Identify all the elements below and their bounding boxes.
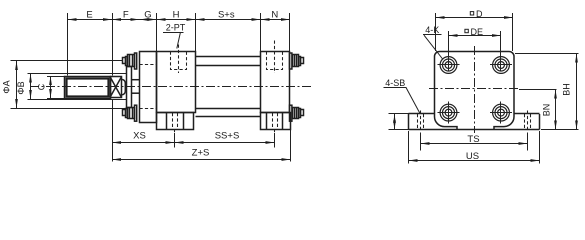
svg-text:US: US bbox=[466, 151, 479, 162]
svg-text:BH: BH bbox=[562, 83, 572, 96]
svg-text:XS: XS bbox=[133, 131, 146, 142]
svg-text:N: N bbox=[271, 10, 278, 21]
svg-text:H: H bbox=[173, 10, 180, 21]
svg-text:DE: DE bbox=[471, 27, 484, 37]
svg-text:S+s: S+s bbox=[218, 10, 235, 21]
svg-text:4-K: 4-K bbox=[425, 25, 439, 35]
svg-text:BN: BN bbox=[542, 104, 552, 117]
svg-text:4-SB: 4-SB bbox=[385, 78, 405, 88]
svg-text:TS: TS bbox=[467, 134, 479, 145]
svg-text:G: G bbox=[144, 10, 151, 21]
svg-text:C: C bbox=[37, 83, 47, 90]
svg-text:D: D bbox=[476, 9, 483, 19]
svg-text:SS+S: SS+S bbox=[215, 131, 240, 142]
svg-text:Z+S: Z+S bbox=[192, 147, 210, 158]
svg-text:2-PT: 2-PT bbox=[166, 23, 186, 33]
svg-text:ΦA: ΦA bbox=[2, 80, 12, 93]
svg-text:F: F bbox=[123, 10, 129, 21]
svg-text:E: E bbox=[86, 10, 92, 21]
svg-text:ΦB: ΦB bbox=[16, 81, 26, 94]
